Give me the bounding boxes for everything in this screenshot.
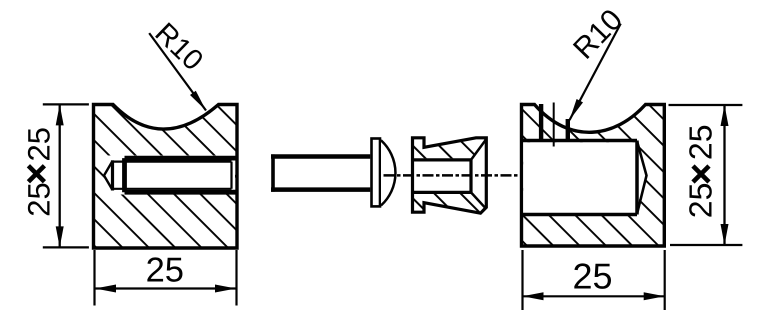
right block vertical tap bar left [539, 104, 543, 141]
dimension 25x25 right: arrows [721, 105, 729, 126]
right block vertical tap bar right [566, 119, 570, 141]
radius label R10 left: leader [149, 33, 206, 110]
dimension 25x25 left: extension lines [43, 104, 89, 247]
radius label R10 right: arrowhead [570, 99, 584, 120]
dimension 25x25 right: dimension line [723, 105, 725, 245]
svg-text:25: 25 [21, 127, 56, 161]
left block [94, 105, 238, 249]
bolt shaft [271, 154, 370, 191]
dimension 25x25 right: extension lines [669, 105, 743, 245]
left hole bottom vertical [111, 160, 114, 190]
expanding insert: outer outline [413, 138, 487, 213]
radius label R10 right: leader [570, 24, 621, 121]
left block threaded hole (white clearing) [103, 156, 235, 195]
dimension 25x25 left: text [21, 127, 56, 217]
expanding insert: inner cone diagonals [471, 140, 486, 208]
expanding insert: bore lines [413, 160, 472, 193]
left hole minor bore lines (thin) [113, 162, 232, 189]
radius label R10 left: arrowhead [190, 91, 206, 111]
dimension 25x25 right: text [683, 125, 719, 219]
dimension 25x25 left: dimension line [59, 104, 61, 247]
svg-text:25: 25 [683, 183, 719, 219]
dimension 25 bottom-right: dimension line [523, 295, 665, 297]
svg-text:25: 25 [146, 251, 184, 289]
svg-text:25: 25 [572, 256, 612, 297]
right hole outline [522, 141, 638, 215]
right block vertical hole centerline [553, 103, 555, 147]
dimension 25 bottom-right: extension lines [523, 250, 665, 310]
centerline [384, 174, 522, 177]
expanding insert: hatch bottom wall [413, 194, 487, 213]
dimension 25 bottom-left: extension lines [95, 250, 237, 306]
svg-text:25: 25 [21, 182, 56, 216]
left hole thread major outline (thick) [125, 158, 237, 192]
dimension 25 bottom-left: arrows [95, 285, 116, 293]
bolt head dome [381, 140, 395, 205]
right block hole (white clearing) [523, 142, 646, 213]
left hole drill cone [104, 161, 113, 190]
dimension 25x25 left: arrows [56, 104, 64, 125]
svg-text:25: 25 [683, 125, 719, 161]
right hole drill cone [637, 141, 647, 214]
bolt head flange [372, 139, 381, 207]
dimension 25 bottom-right: arrows [523, 292, 544, 300]
right block [522, 105, 665, 247]
dimension 25 bottom-left: dimension line [95, 287, 236, 289]
expanding insert: hatch top wall [413, 138, 487, 159]
